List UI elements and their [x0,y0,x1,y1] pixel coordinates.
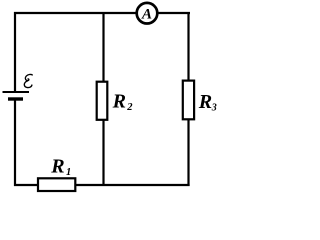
resistor R2 (body) [97,82,108,120]
wire: bottom horizontal [14,184,190,186]
wire: left vertical (top, battery to top wire) [14,12,16,91]
svg-text:2: 2 [126,102,133,113]
ammeter A1 [137,3,158,24]
resistor R2 label [112,91,134,114]
resistor R1 (body) [38,178,75,191]
resistor R3 (body) [183,81,194,120]
svg-text:R: R [198,91,212,113]
wire: top horizontal [14,12,190,14]
battery (EMF source) [3,92,30,99]
svg-text:R: R [50,156,64,178]
wire: left vertical (battery to bottom wire) [14,99,16,186]
resistor R3 label [198,91,217,113]
resistor R1 label [50,156,71,179]
svg-text:R: R [112,91,126,113]
wire: middle branch vertical [102,12,104,186]
svg-text:1: 1 [66,167,71,178]
EMF label (script E) [24,74,32,87]
wire: right vertical [187,12,189,186]
svg-text:3: 3 [211,102,217,113]
svg-text:A: A [141,6,152,22]
